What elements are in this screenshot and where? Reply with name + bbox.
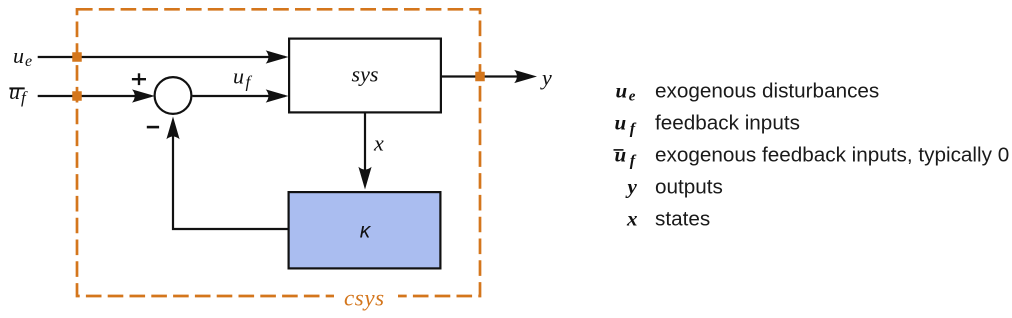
svg-text:outputs: outputs <box>655 176 723 199</box>
arrowhead ubar_f into summing junction <box>132 89 155 102</box>
svg-text:uf: uf <box>615 143 637 170</box>
svg-text:y: y <box>540 65 552 90</box>
svg-text:uf: uf <box>615 111 637 138</box>
svg-text:sys: sys <box>352 62 379 87</box>
arrowhead y <box>514 70 537 83</box>
svg-text:states: states <box>655 208 710 231</box>
svg-text:csys: csys <box>344 286 385 311</box>
svg-text:y: y <box>625 175 638 199</box>
svg-text:ue: ue <box>13 43 32 70</box>
svg-text:feedback inputs: feedback inputs <box>655 112 800 135</box>
summing junction circle <box>155 77 192 114</box>
wire u_e <box>38 56 285 58</box>
wire x from sys to kappa <box>364 114 366 176</box>
block kappa <box>289 192 441 268</box>
csys label mask <box>334 288 398 311</box>
arrowhead x into kappa <box>358 167 371 190</box>
block sys <box>289 39 441 113</box>
arrowhead u_f into sys <box>266 89 289 102</box>
wire y output <box>442 75 520 77</box>
node marker square ubar_f on boundary <box>72 91 82 101</box>
svg-text:uf: uf <box>233 64 253 92</box>
svg-text:ue: ue <box>616 79 636 105</box>
svg-text:exogenous disturbances: exogenous disturbances <box>655 80 879 103</box>
svg-text:x: x <box>626 207 638 231</box>
wire ubar_f <box>38 95 151 97</box>
svg-text:exogenous feedback inputs, typ: exogenous feedback inputs, typically 0 <box>655 144 1009 167</box>
arrowhead u_e into sys <box>266 50 289 63</box>
minus sign <box>147 126 159 129</box>
svg-text:uf: uf <box>9 79 28 107</box>
dashed boundary box csys <box>77 9 480 296</box>
wire feedback from kappa to summing junction <box>173 130 288 229</box>
node marker square u_e on boundary <box>72 52 82 62</box>
plus sign <box>132 78 146 80</box>
svg-text:κ: κ <box>360 220 372 243</box>
arrowhead feedback into summing junction <box>166 117 179 140</box>
node marker square y on boundary <box>475 72 485 82</box>
wire u_f <box>193 95 286 97</box>
svg-text:x: x <box>373 131 384 156</box>
